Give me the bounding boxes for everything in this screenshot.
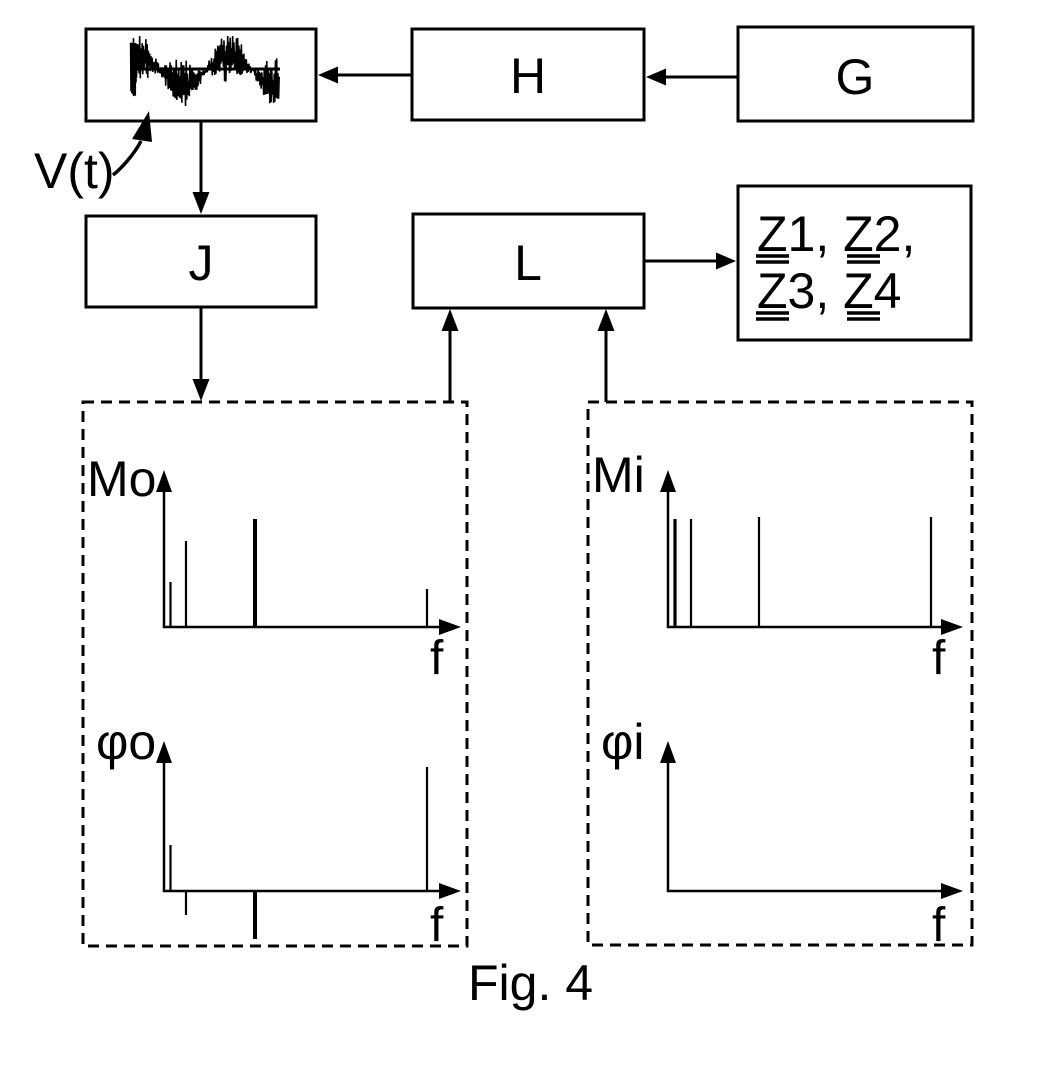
svg-text:f: f — [430, 899, 444, 952]
svg-text:H: H — [510, 48, 546, 104]
svg-text:Fig. 4: Fig. 4 — [468, 955, 593, 1011]
svg-text:Z1, Z2,: Z1, Z2, — [757, 206, 915, 262]
svg-text:f: f — [430, 632, 444, 685]
svg-text:f: f — [932, 899, 946, 952]
svg-text:G: G — [836, 49, 875, 105]
svg-text:Mo: Mo — [87, 451, 156, 507]
svg-text:Z3, Z4: Z3, Z4 — [757, 263, 901, 319]
svg-text:φo: φo — [96, 714, 156, 770]
svg-text:φi: φi — [601, 714, 645, 770]
svg-text:V(t): V(t) — [34, 143, 115, 199]
svg-text:Mi: Mi — [592, 447, 645, 503]
svg-text:L: L — [514, 235, 542, 291]
svg-text:f: f — [932, 632, 946, 685]
svg-text:J: J — [189, 235, 214, 291]
